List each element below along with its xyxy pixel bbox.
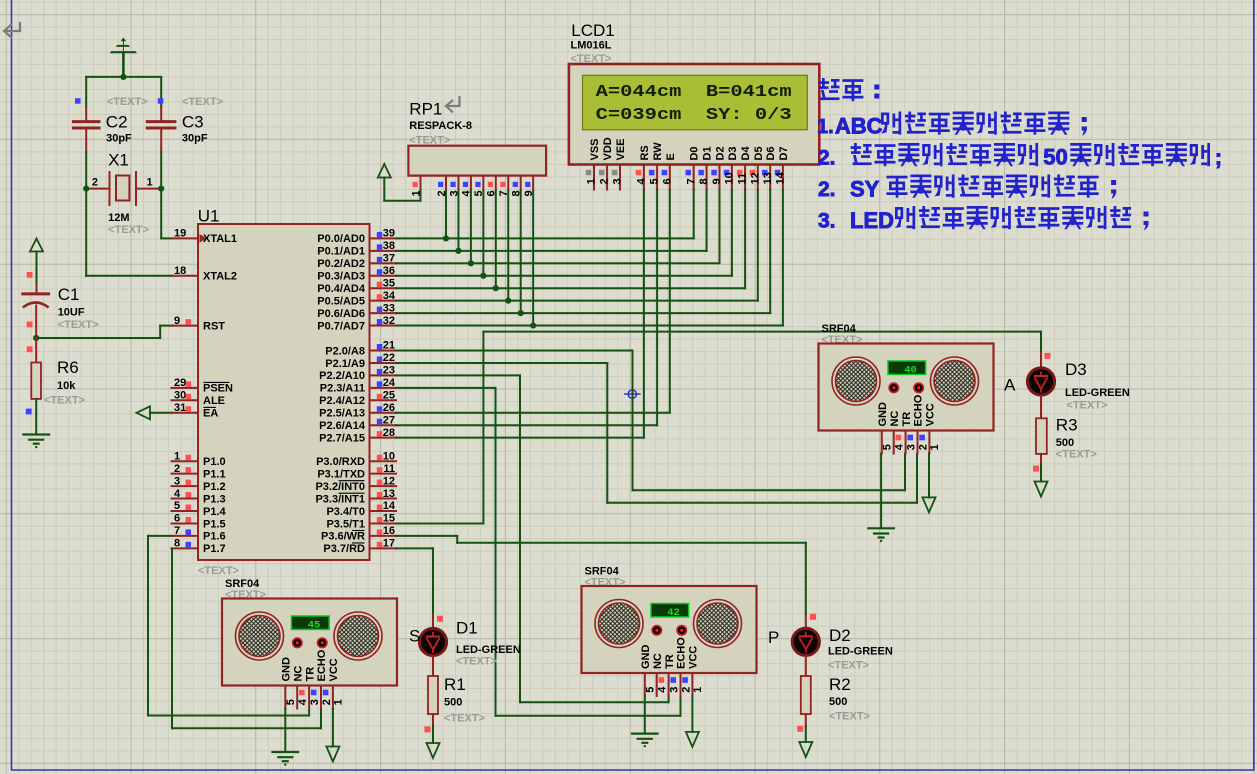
svg-text:D3: D3 xyxy=(1065,360,1087,379)
svg-text:31: 31 xyxy=(174,402,186,414)
svg-text:3: 3 xyxy=(668,687,680,693)
power arrow (RP1 common) xyxy=(378,164,391,178)
wire: P2.3 to SRF04#2 ECHO xyxy=(396,387,496,389)
svg-text:3: 3 xyxy=(309,699,321,705)
svg-text:<TEXT>: <TEXT> xyxy=(198,565,239,577)
wires: RP1 pins 2-9 to P0 bus xyxy=(445,190,447,238)
svg-text:P3.6/WR: P3.6/WR xyxy=(321,531,365,543)
svg-text:ECHO: ECHO xyxy=(316,649,328,681)
capacitor C3 xyxy=(160,77,162,107)
svg-text:3: 3 xyxy=(612,178,624,184)
svg-text:3.: 3. xyxy=(818,210,836,233)
pin 11 P3.1/TXD xyxy=(370,473,397,475)
svg-text:P3.3/INT1: P3.3/INT1 xyxy=(315,493,365,505)
svg-text:P2.0/A8: P2.0/A8 xyxy=(325,345,365,357)
svg-text:SY: SY xyxy=(850,177,880,202)
svg-text:GND: GND xyxy=(640,645,652,670)
LCD pin 12 D5 xyxy=(757,165,759,190)
svg-text:26: 26 xyxy=(383,402,395,414)
svg-text:P2.3/A11: P2.3/A11 xyxy=(320,383,365,395)
svg-text:P1.1: P1.1 xyxy=(203,468,226,480)
svg-text:P1.5: P1.5 xyxy=(203,518,226,530)
pin 29 PSEN xyxy=(172,387,199,389)
svg-text:37: 37 xyxy=(383,253,395,265)
svg-text:RP1: RP1 xyxy=(409,100,442,119)
svg-text:ALE: ALE xyxy=(203,395,225,407)
svg-text:<TEXT>: <TEXT> xyxy=(456,656,497,668)
svg-text:XTAL2: XTAL2 xyxy=(203,271,237,283)
pin 1 P1.0 xyxy=(172,460,199,462)
wire: SRF04#2 GND to ground xyxy=(644,696,646,733)
svg-text:22: 22 xyxy=(383,352,395,364)
svg-text:P1.0: P1.0 xyxy=(203,456,226,468)
svg-text:33: 33 xyxy=(383,302,395,314)
svg-text:R2: R2 xyxy=(829,675,851,694)
svg-text:VCC: VCC xyxy=(925,403,937,426)
svg-text:1: 1 xyxy=(174,450,180,462)
display value 45 xyxy=(292,616,330,629)
svg-text:LED-GREEN: LED-GREEN xyxy=(1065,387,1130,399)
svg-text:2: 2 xyxy=(174,463,180,475)
LCD pin 5 RW xyxy=(656,165,658,190)
wire: junction to RST pin xyxy=(36,337,160,339)
svg-text:TR: TR xyxy=(664,654,676,669)
svg-text:9: 9 xyxy=(174,315,180,327)
ground (R6) xyxy=(23,433,49,435)
svg-text:R1: R1 xyxy=(444,675,466,694)
svg-text:VCC: VCC xyxy=(688,646,700,669)
svg-text:C=039cm SY: 0/3: C=039cm SY: 0/3 xyxy=(596,105,792,124)
LCD pin 1 VSS xyxy=(593,165,595,190)
svg-text:A: A xyxy=(1004,376,1016,395)
svg-text:30: 30 xyxy=(174,390,186,402)
svg-text:32: 32 xyxy=(383,315,395,327)
svg-text:P: P xyxy=(768,628,779,647)
svg-text:LED-GREEN: LED-GREEN xyxy=(828,646,893,658)
node: crystal pins xyxy=(83,186,89,192)
svg-text:ECHO: ECHO xyxy=(676,637,688,669)
pin 12 P3.2/INT0 xyxy=(370,485,397,487)
LED D3 LED-GREEN xyxy=(1045,353,1051,359)
wires: P0.0-P0.7 to LCD D0-D7 xyxy=(396,237,694,239)
LCD pin 14 D7 xyxy=(782,165,784,190)
svg-text:P2.4/A12: P2.4/A12 xyxy=(319,395,365,407)
svg-text:C1: C1 xyxy=(58,285,80,304)
svg-text:LED: LED xyxy=(850,208,894,233)
wire: SRF04#1 GND to ground xyxy=(284,709,286,752)
svg-text:<TEXT>: <TEXT> xyxy=(829,711,870,723)
svg-text:34: 34 xyxy=(383,290,396,302)
svg-text:9: 9 xyxy=(711,178,723,184)
svg-text:13: 13 xyxy=(383,488,395,500)
RP1 pin 6 xyxy=(495,176,497,191)
node: RST junction xyxy=(33,335,39,341)
svg-text:<TEXT>: <TEXT> xyxy=(44,395,85,407)
LCD pin 8 D1 xyxy=(706,165,708,190)
svg-text:1: 1 xyxy=(692,687,704,693)
svg-text:XTAL1: XTAL1 xyxy=(203,233,237,245)
svg-text:8: 8 xyxy=(174,538,180,550)
svg-text:28: 28 xyxy=(383,427,395,439)
svg-text:5: 5 xyxy=(649,178,661,184)
LED D2 LED-GREEN xyxy=(810,614,816,620)
svg-text:1: 1 xyxy=(147,177,153,189)
pin 33 P0.6/AD6 xyxy=(370,312,397,314)
svg-text:LM016L: LM016L xyxy=(571,40,612,52)
power arrow down (SRF04#2 VCC) xyxy=(691,696,693,732)
svg-text:P1.3: P1.3 xyxy=(203,493,226,505)
svg-text:C3: C3 xyxy=(182,113,204,132)
pin 5 P1.4 xyxy=(172,510,199,512)
svg-text:RST: RST xyxy=(203,320,225,332)
wire: X1 pin2 to XTAL2 xyxy=(85,189,87,276)
svg-text:500: 500 xyxy=(829,696,847,708)
svg-text:4: 4 xyxy=(657,686,669,693)
power arrow (RST net) xyxy=(30,239,43,252)
pin 30 ALE xyxy=(172,399,199,401)
wire: P1.6 to SRF04#1 TR xyxy=(148,535,172,537)
svg-text:;: ; xyxy=(1215,145,1222,170)
svg-text:15: 15 xyxy=(383,513,395,525)
svg-text:1: 1 xyxy=(586,178,598,184)
LCD pin 11 D4 xyxy=(744,165,746,190)
pin 22 P2.1/A9 xyxy=(370,362,397,364)
svg-text:P3.0/RXD: P3.0/RXD xyxy=(316,456,365,468)
svg-text:RESPACK-8: RESPACK-8 xyxy=(409,120,472,132)
svg-text:10UF: 10UF xyxy=(58,307,85,319)
svg-text:PSEN: PSEN xyxy=(203,383,233,395)
svg-text:4: 4 xyxy=(894,443,906,450)
pin 35 P0.4/AD4 xyxy=(370,287,397,289)
pin 15 P3.5/T1 xyxy=(370,522,397,524)
svg-text:P2.1/A9: P2.1/A9 xyxy=(325,358,365,370)
capacitor C2 xyxy=(85,77,87,107)
power arrow down (R3) xyxy=(1035,482,1048,497)
wire: P2.7 to LCD RS xyxy=(396,437,644,439)
pin 17 P3.7/RD xyxy=(370,547,397,549)
svg-text:C2: C2 xyxy=(106,113,128,132)
RP1 pin 7 xyxy=(507,176,509,191)
svg-text:39: 39 xyxy=(383,228,395,240)
pin 10 P3.0/RXD xyxy=(370,460,397,462)
svg-text:10: 10 xyxy=(724,172,736,184)
pin 23 P2.2/A10 xyxy=(370,374,397,376)
LED D1 LED-GREEN xyxy=(437,616,443,622)
svg-text:6: 6 xyxy=(174,513,180,525)
ground (top, crystal net) xyxy=(122,41,124,53)
svg-text:42: 42 xyxy=(667,607,680,619)
svg-text:11: 11 xyxy=(383,463,395,475)
LCD pin 13 D6 xyxy=(769,165,771,190)
pin 36 P0.3/AD3 xyxy=(370,275,397,277)
svg-text:P1.2: P1.2 xyxy=(203,481,226,493)
svg-text:P1.4: P1.4 xyxy=(203,506,227,518)
svg-text:11: 11 xyxy=(737,173,749,185)
svg-text:P2.6/A14: P2.6/A14 xyxy=(319,420,366,432)
RP1 pin 5 xyxy=(482,176,484,191)
svg-text:P0.4/AD4: P0.4/AD4 xyxy=(317,283,366,295)
RP1 pin 9 xyxy=(532,176,534,191)
svg-text:GND: GND xyxy=(281,657,293,682)
pin 3 P1.2 xyxy=(172,485,199,487)
pin 24 P2.3/A11 xyxy=(370,387,397,389)
svg-text:24: 24 xyxy=(383,377,396,389)
svg-text:25: 25 xyxy=(383,390,395,402)
svg-text:EA: EA xyxy=(203,408,218,420)
svg-text:18: 18 xyxy=(174,265,186,277)
pin 34 P0.5/AD5 xyxy=(370,300,397,302)
svg-text:D5: D5 xyxy=(753,146,765,160)
pin 14 P3.4/T0 xyxy=(370,510,397,512)
svg-text:<TEXT>: <TEXT> xyxy=(828,660,869,672)
svg-text:R6: R6 xyxy=(57,358,79,377)
LCD pin 9 D2 xyxy=(719,165,721,190)
pin 38 P0.1/AD1 xyxy=(370,250,397,252)
svg-text:D2: D2 xyxy=(829,626,851,645)
svg-text:A=044cm B=041cm: A=044cm B=041cm xyxy=(596,82,792,101)
pin 25 P2.4/A12 xyxy=(370,399,397,401)
wire: P2.0 to SRF04#3 TR xyxy=(396,350,633,352)
power arrow down (R2) xyxy=(799,742,812,757)
LCD pin 10 D3 xyxy=(731,165,733,190)
svg-text:2: 2 xyxy=(92,177,98,189)
svg-text:14: 14 xyxy=(383,500,396,512)
wire: P2.2 to SRF04#2 TR xyxy=(396,374,520,376)
svg-text:P2.5/A13: P2.5/A13 xyxy=(319,408,365,420)
pin 2 P1.1 xyxy=(172,473,199,475)
wire: P3.5/T1 to LED D3 xyxy=(396,522,483,524)
svg-text:D2: D2 xyxy=(715,146,727,160)
display value 42 xyxy=(651,604,689,617)
pin 28 P2.7/A15 xyxy=(370,437,397,439)
svg-text:<TEXT>: <TEXT> xyxy=(1067,400,1108,412)
svg-text:38: 38 xyxy=(383,240,395,252)
capacitor C1 10UF xyxy=(23,292,49,295)
svg-text:D6: D6 xyxy=(765,146,777,160)
svg-text:40: 40 xyxy=(904,365,917,377)
svg-text:<TEXT>: <TEXT> xyxy=(444,713,485,725)
svg-text:VDD: VDD xyxy=(602,137,614,160)
RP1 pin 3 xyxy=(457,176,459,191)
wire: P1.7 to SRF04#1 ECHO xyxy=(171,548,173,728)
svg-text:3: 3 xyxy=(905,444,917,450)
svg-text:23: 23 xyxy=(383,365,395,377)
svg-text:2: 2 xyxy=(321,699,333,705)
pin 26 P2.5/A13 xyxy=(370,412,397,414)
svg-text:D4: D4 xyxy=(740,146,752,161)
wire: XTAL top rail xyxy=(86,76,161,78)
svg-text:E: E xyxy=(665,153,677,160)
svg-text:RW: RW xyxy=(652,142,664,161)
svg-text:35: 35 xyxy=(383,277,395,289)
svg-text:NC: NC xyxy=(889,411,901,427)
power arrow at EA pin xyxy=(137,406,151,419)
ground (SRF04#3) xyxy=(868,527,894,529)
annotation title: 说明： xyxy=(819,78,840,100)
svg-text:50: 50 xyxy=(1043,145,1067,170)
svg-text:P2.2/A10: P2.2/A10 xyxy=(319,370,365,382)
svg-text:VEE: VEE xyxy=(615,138,627,160)
svg-text:17: 17 xyxy=(383,538,395,550)
LCD pin 2 VDD xyxy=(606,165,608,190)
junction top rail xyxy=(120,74,126,80)
pin 31 EA xyxy=(172,412,199,414)
pin 13 P3.3/INT1 xyxy=(370,498,397,500)
svg-text:4: 4 xyxy=(174,488,181,500)
pin 8 P1.7 xyxy=(172,547,199,549)
pin 7 P1.6 xyxy=(172,535,199,537)
ground (SRF04#2) xyxy=(632,732,658,734)
svg-text:12M: 12M xyxy=(108,212,129,224)
svg-text:P0.7/AD7: P0.7/AD7 xyxy=(317,320,365,332)
svg-text:21: 21 xyxy=(383,340,395,352)
wire: SRF04#3 GND to ground xyxy=(880,454,882,529)
svg-text:3: 3 xyxy=(174,475,180,487)
svg-text:P3.2/INT0: P3.2/INT0 xyxy=(315,481,365,493)
svg-text:2.: 2. xyxy=(818,147,836,170)
mcu U1 (80C51) xyxy=(198,224,370,560)
svg-text:LCD1: LCD1 xyxy=(571,21,614,40)
svg-text:27: 27 xyxy=(383,414,395,426)
wire: R6 to ground xyxy=(35,399,37,434)
power arrow down (SRF04#1 VCC) xyxy=(332,709,334,747)
svg-text:ECHO: ECHO xyxy=(913,394,925,426)
pin 37 P0.2/AD2 xyxy=(370,262,397,264)
svg-text:4: 4 xyxy=(636,178,648,185)
wire: P3.7/RD to LED D1 xyxy=(396,547,433,549)
svg-text:2.: 2. xyxy=(818,178,836,201)
RP1 pin 4 xyxy=(470,176,472,191)
pin 19 XTAL1 xyxy=(172,237,199,239)
resistor R2 500 xyxy=(801,676,811,714)
svg-text:2: 2 xyxy=(599,178,611,184)
svg-text:12: 12 xyxy=(383,475,395,487)
svg-text:P0.2/AD2: P0.2/AD2 xyxy=(317,258,365,270)
svg-text:1: 1 xyxy=(333,699,345,705)
pin 16 P3.6/WR xyxy=(370,535,397,537)
LCD pin 6 E xyxy=(669,165,671,190)
svg-text:S: S xyxy=(409,627,420,646)
pin 32 P0.7/AD7 xyxy=(370,325,397,327)
RP1 pin 8 xyxy=(520,176,522,191)
svg-text:P0.3/AD3: P0.3/AD3 xyxy=(317,271,365,283)
resistor R1 500 xyxy=(428,676,438,714)
svg-text:16: 16 xyxy=(383,525,395,537)
pin 6 P1.5 xyxy=(172,522,199,524)
svg-text:P0.1/AD1: P0.1/AD1 xyxy=(317,246,365,258)
svg-text:TR: TR xyxy=(901,412,913,427)
svg-text:R3: R3 xyxy=(1056,416,1078,435)
wire: X1 pin1 to XTAL1 xyxy=(160,189,162,239)
svg-text:7: 7 xyxy=(685,178,697,184)
svg-text:14: 14 xyxy=(775,171,787,184)
svg-text:5: 5 xyxy=(882,444,894,450)
pin 9 RST xyxy=(172,325,199,327)
svg-text:P3.5/T1: P3.5/T1 xyxy=(326,518,365,530)
svg-text:GND: GND xyxy=(877,402,889,427)
svg-text:10k: 10k xyxy=(57,380,76,392)
svg-text:VCC: VCC xyxy=(328,658,340,681)
svg-text:30pF: 30pF xyxy=(182,133,208,145)
svg-text:6: 6 xyxy=(661,178,673,184)
display value 40 xyxy=(888,361,926,374)
wire: P2.6 to LCD RW xyxy=(396,424,657,426)
svg-text:2: 2 xyxy=(680,687,692,693)
wire: P2.1 to SRF04#3 ECHO xyxy=(396,362,607,364)
svg-text:P1.6: P1.6 xyxy=(203,531,226,543)
svg-text:5: 5 xyxy=(645,687,657,693)
svg-text:30pF: 30pF xyxy=(106,133,132,145)
svg-text:P3.1/TXD: P3.1/TXD xyxy=(317,468,365,480)
svg-text:D3: D3 xyxy=(727,146,739,160)
wire: P3.6/WR to LED D2 xyxy=(396,535,457,537)
svg-text:TR: TR xyxy=(304,667,316,682)
pin 39 P0.0/AD0 xyxy=(370,237,397,239)
svg-text:<TEXT>: <TEXT> xyxy=(107,96,148,108)
svg-text:P2.7/A15: P2.7/A15 xyxy=(319,432,365,444)
svg-text:P3.4/T0: P3.4/T0 xyxy=(326,506,365,518)
svg-text:7: 7 xyxy=(174,525,180,537)
power arrow down (R1) xyxy=(427,743,440,758)
svg-text:1: 1 xyxy=(929,444,941,450)
svg-text:U1: U1 xyxy=(198,207,220,226)
svg-text:19: 19 xyxy=(174,228,186,240)
svg-text:P1.7: P1.7 xyxy=(203,543,226,555)
svg-text:P0.0/AD0: P0.0/AD0 xyxy=(317,233,365,245)
svg-text:<TEXT>: <TEXT> xyxy=(108,224,149,236)
wire: P2.5 to LCD E xyxy=(396,412,670,414)
resistor R6 10k xyxy=(35,338,37,363)
svg-text:LED-GREEN: LED-GREEN xyxy=(456,644,521,656)
pin 21 P2.0/A8 xyxy=(370,350,397,352)
svg-text:13: 13 xyxy=(762,172,774,184)
resistor R3 500 xyxy=(1036,418,1047,454)
svg-text:D1: D1 xyxy=(456,619,478,638)
svg-text:D1: D1 xyxy=(702,146,714,160)
pin 27 P2.6/A14 xyxy=(370,424,397,426)
svg-text:5: 5 xyxy=(285,699,297,705)
svg-text:2: 2 xyxy=(917,444,929,450)
svg-text:X1: X1 xyxy=(108,151,129,170)
svg-text:D0: D0 xyxy=(689,146,701,160)
svg-text:P0.5/AD5: P0.5/AD5 xyxy=(317,295,365,307)
svg-text:P0.6/AD6: P0.6/AD6 xyxy=(317,308,365,320)
pin 18 XTAL2 xyxy=(172,275,199,277)
svg-text:<TEXT>: <TEXT> xyxy=(1056,449,1097,461)
RP1 pin 1 xyxy=(420,176,422,191)
svg-text:1.: 1. xyxy=(817,116,834,138)
LCD pin 7 D0 xyxy=(693,165,695,190)
svg-text:RS: RS xyxy=(639,145,651,160)
svg-text:<TEXT>: <TEXT> xyxy=(182,96,223,108)
svg-text:<TEXT>: <TEXT> xyxy=(58,319,99,331)
svg-text:45: 45 xyxy=(308,620,321,632)
svg-text:ABC: ABC xyxy=(835,114,883,139)
svg-text:D7: D7 xyxy=(778,146,790,160)
svg-text:12: 12 xyxy=(749,172,761,184)
svg-text:NC: NC xyxy=(652,653,664,669)
power arrow down (SRF04#3 VCC) xyxy=(928,454,930,498)
svg-text:36: 36 xyxy=(383,265,395,277)
svg-text:NC: NC xyxy=(292,666,304,682)
RP1 pin 2 xyxy=(445,176,447,191)
svg-text:10: 10 xyxy=(383,450,395,462)
svg-text:P3.7/RD: P3.7/RD xyxy=(323,543,365,555)
svg-text:29: 29 xyxy=(174,377,186,389)
pin 4 P1.3 xyxy=(172,498,199,500)
ground (SRF04#1) xyxy=(273,751,299,753)
svg-text:5: 5 xyxy=(174,500,180,512)
